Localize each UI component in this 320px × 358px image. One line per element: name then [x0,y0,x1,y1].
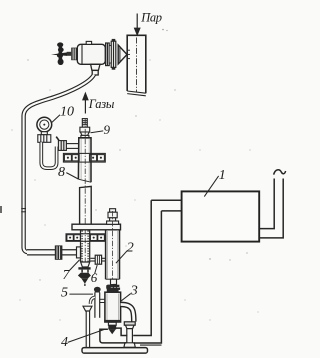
burner cylinder 3 cap [106,284,118,292]
valve outlet elbow [91,64,100,75]
svg-text:3: 3 [130,283,138,298]
feed tube nut at tube 7 [77,247,81,258]
steam arrow [135,14,140,35]
fitting 6 [90,255,105,264]
cylinder 2 [106,230,120,279]
bracket B [66,234,105,242]
mounting plate [72,224,121,230]
steam pipe [127,35,146,96]
tube below cylinder 8 [80,186,92,224]
specks [135,29,258,313]
svg-text:9: 9 [104,122,111,137]
bracket A [63,153,105,162]
side valve T-fitting on cylinder 8 [56,137,79,151]
wires from box to burner [151,200,181,211]
valve stem [67,52,71,56]
wires under burner [100,200,162,345]
fitting 9 [80,119,90,138]
cylinder 8 [78,138,91,182]
gas arrow [83,93,88,113]
burner cylinder 3 [105,292,121,322]
gauge U-tube [41,142,56,168]
valve cone [118,45,127,64]
centerline of column [84,119,86,268]
cylinder 3 bottom flange [104,320,120,322]
valve packing gland [71,48,77,61]
gauge fitting [38,132,51,143]
valve flange ribs [106,39,116,70]
svg-text:4: 4 [61,335,68,350]
svg-text:Пар: Пар [140,11,161,25]
tube from valve to left [24,75,94,253]
svg-text:10: 10 [60,105,74,120]
wires to mains [259,179,283,238]
cylinder 2 flare joint [107,285,120,290]
svg-text:6: 6 [91,270,98,285]
tube joint [21,209,26,212]
svg-text:2: 2 [127,240,134,255]
cylinder 2 neck [111,279,117,284]
gooseneck tube [121,304,134,321]
bolt on cylinder 2 [107,209,119,225]
feed tube coupling [55,245,63,259]
AC symbol [274,170,286,175]
svg-text:Газы: Газы [88,97,115,111]
valve handwheel [51,42,67,65]
svg-text:8: 8 [58,165,65,180]
tube 7 threaded body [81,230,90,262]
stand [83,306,92,347]
valve body [77,41,105,64]
component 5 [90,287,105,318]
feed tube horizontal [27,249,80,255]
edge smudge [0,206,2,213]
tube 7 drip tip [78,267,91,286]
base [82,348,148,354]
pressure gauge 10 [37,117,52,132]
nozzle 4 [108,322,116,334]
svg-text:1: 1 [219,168,226,183]
transformer box 1 [182,191,260,241]
gooseneck flange and pipe [124,322,135,348]
tube 7 nozzle [81,262,90,267]
svg-text:5: 5 [61,285,68,300]
